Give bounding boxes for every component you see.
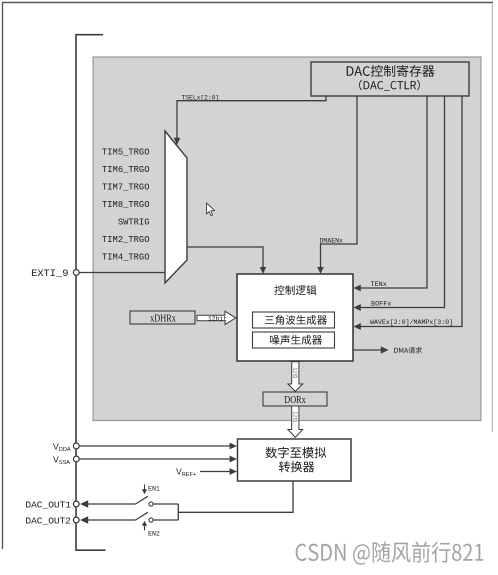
svg-text:TIM7_TRGO: TIM7_TRGO bbox=[102, 183, 150, 193]
svg-text:TSELx[2:0]: TSELx[2:0] bbox=[182, 95, 220, 102]
svg-text:TIM8_TRGO: TIM8_TRGO bbox=[102, 200, 150, 210]
bus arrow 12bit xDHRx to control logic bbox=[197, 311, 236, 324]
DAC converter box bbox=[238, 439, 352, 481]
wire WAVEx/MAMPx bbox=[354, 96, 463, 330]
wire DMAENx bbox=[317, 96, 357, 274]
svg-text:EN2: EN2 bbox=[148, 530, 160, 537]
wire BOFFx bbox=[354, 96, 445, 311]
node DAC_OUT1 pin bbox=[25, 499, 79, 510]
svg-text:DMAENx: DMAENx bbox=[320, 238, 344, 245]
watermark CSDN bbox=[296, 541, 485, 566]
wire VSSA to converter bbox=[79, 456, 237, 463]
svg-text:DAC_OUT1: DAC_OUT1 bbox=[25, 499, 71, 510]
svg-text:TIM2_TRGO: TIM2_TRGO bbox=[102, 235, 150, 245]
svg-text:TIM4_TRGO: TIM4_TRGO bbox=[102, 252, 150, 262]
bus arrow 12bit control logic to DORx bbox=[288, 362, 303, 392]
svg-text:WAVEx[2:0]/MAMPx[3:0]: WAVEx[2:0]/MAMPx[3:0] bbox=[370, 319, 453, 326]
svg-text:SWTRIG: SWTRIG bbox=[118, 217, 150, 227]
triangle wave generator box bbox=[253, 312, 335, 328]
wire DMA request output bbox=[353, 346, 422, 353]
svg-text:DORx: DORx bbox=[284, 394, 306, 406]
svg-text:12bit: 12bit bbox=[208, 315, 227, 322]
switch EN1 control arrow bbox=[142, 485, 160, 495]
svg-text:TIM5_TRGO: TIM5_TRGO bbox=[102, 148, 150, 158]
node VREF+ label and wire bbox=[176, 467, 237, 479]
node VDDA pin bbox=[53, 441, 79, 453]
wire DAC_OUT2 with switch EN2 bbox=[80, 512, 178, 523]
wire VDDA to converter bbox=[79, 443, 237, 450]
wire TSELx from DAC_CTLR to mux select bbox=[174, 95, 326, 146]
svg-text:DAC_OUT2: DAC_OUT2 bbox=[25, 515, 71, 526]
node VSSA pin bbox=[53, 454, 79, 466]
control logic box bbox=[237, 274, 353, 361]
svg-text:EXTI_9: EXTI_9 bbox=[31, 268, 68, 280]
wire EXTI_9 to mux bbox=[79, 272, 165, 274]
DAC peripheral block (gray) bbox=[93, 57, 481, 421]
noise generator box bbox=[253, 332, 335, 348]
node DAC_OUT2 pin bbox=[25, 515, 79, 526]
switch EN2 control arrow bbox=[142, 521, 160, 538]
wire mux output to control logic bbox=[187, 247, 266, 274]
wire DAC_OUT1 with switch EN1 bbox=[80, 496, 178, 507]
register box DORx bbox=[263, 392, 327, 407]
svg-text:xDHRx: xDHRx bbox=[150, 313, 176, 325]
node EXTI_9 pin bbox=[31, 268, 79, 280]
svg-text:TIM6_TRGO: TIM6_TRGO bbox=[102, 165, 150, 175]
mux trigger input labels bbox=[102, 148, 150, 263]
svg-text:EN1: EN1 bbox=[148, 485, 160, 492]
register box DAC_CTLR bbox=[311, 62, 469, 96]
wire converter output to switches bbox=[178, 481, 293, 512]
mux (trigger selector) bbox=[165, 131, 187, 283]
mouse cursor bbox=[207, 203, 215, 216]
register box xDHRx bbox=[130, 311, 195, 325]
wire switch rail bbox=[177, 504, 179, 520]
svg-text:BOFFx: BOFFx bbox=[371, 300, 391, 308]
bus arrow 12bit DORx to DAC converter bbox=[288, 406, 303, 437]
wire TENx bbox=[354, 96, 428, 291]
wire: external pin rail bbox=[76, 35, 106, 551]
svg-text:TENx: TENx bbox=[371, 281, 387, 289]
